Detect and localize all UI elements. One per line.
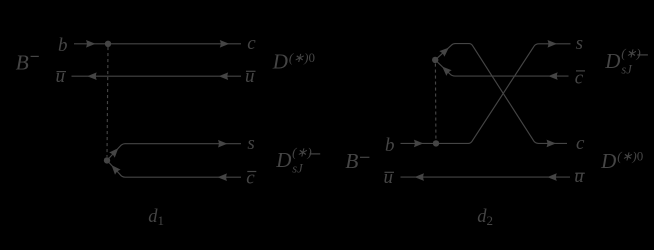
label cbar (d2): [575, 68, 585, 89]
arrow cbar horizontal (d2): [549, 73, 557, 79]
label ubar (d2 left): [384, 167, 395, 188]
arrow cbar horizontal (d1): [219, 174, 227, 180]
svg-text:c: c: [246, 167, 255, 188]
svg-text:u: u: [384, 167, 394, 188]
label ubar (d1 right): [245, 66, 256, 87]
label cbar (d1): [246, 167, 256, 188]
quark line cbar with curl from lower vertex (d1): [107, 160, 241, 177]
svg-text:1: 1: [158, 213, 165, 228]
svg-text:c: c: [576, 133, 585, 154]
label d1 (caption): [148, 207, 164, 228]
vertex dot lower (d1): [104, 157, 110, 163]
svg-text:2: 2: [487, 213, 494, 228]
svg-text:D: D: [275, 148, 291, 172]
arrow c (d1): [220, 41, 228, 47]
vertex dot lower (d2): [433, 140, 439, 146]
svg-text:s: s: [247, 133, 254, 154]
label ubar (d1 left): [56, 66, 67, 87]
label ubar (d2 right): [574, 166, 585, 187]
svg-text:sJ: sJ: [621, 63, 633, 77]
svg-text:(∗): (∗): [292, 144, 312, 159]
label B- (d1): [16, 51, 39, 75]
quark line b->c (d1 top): [74, 43, 241, 45]
arrow ubar right (d1): [220, 73, 228, 79]
svg-text:u: u: [56, 66, 66, 87]
quark line ubar (d1 spectator): [72, 75, 242, 77]
arrow ubar left (d2): [416, 174, 424, 180]
arrow c diagonal at curl (d2): [440, 46, 450, 56]
quark line cbar from upper vertex (d2): [435, 60, 568, 76]
svg-text:B: B: [345, 149, 358, 173]
vertex dot upper (d2): [432, 57, 438, 63]
svg-text:c: c: [247, 33, 256, 54]
svg-text:(∗)0: (∗)0: [289, 50, 315, 65]
svg-text:(∗): (∗): [621, 45, 641, 60]
label d2 (caption): [477, 207, 493, 228]
svg-text:D: D: [604, 49, 620, 73]
svg-text:D: D: [272, 50, 288, 74]
arrow cbar diagonal (d1): [110, 164, 120, 174]
arrow ubar right (d2): [548, 174, 556, 180]
arrow b (d2): [415, 140, 423, 146]
quark line b with bend up to s label (d2): [401, 44, 571, 144]
svg-text:u: u: [574, 166, 584, 187]
quark line c from upper vertex curl crossing down (d2): [435, 44, 567, 144]
svg-text:D: D: [600, 149, 616, 173]
label D(*)0 (d2): [600, 149, 643, 173]
gluon/W propagator dashed (d2): [434, 64, 437, 141]
arrow s (d2): [548, 41, 556, 47]
arrow b (d1): [87, 41, 95, 47]
W propagator dashed (d1): [107, 47, 108, 157]
label B- (d2): [345, 149, 369, 173]
arrow cbar diagonal at curl (d2): [441, 65, 451, 75]
label DsJ(*)- (d2): [604, 45, 648, 76]
arrow ubar left (d1): [88, 73, 96, 79]
svg-text:sJ: sJ: [292, 162, 304, 176]
quark line ubar (d2 spectator): [401, 176, 571, 178]
arrow c horizontal (d2): [547, 140, 555, 146]
svg-text:s: s: [576, 33, 583, 54]
quark line s with curl from lower vertex (d1): [107, 144, 241, 161]
svg-text:B: B: [16, 51, 29, 75]
label D(*)0 (d1): [272, 50, 315, 74]
vertex dot upper (d1): [105, 41, 111, 47]
svg-text:(∗)0: (∗)0: [617, 149, 643, 164]
arrow s diagonal (d1): [110, 147, 120, 157]
svg-text:b: b: [58, 35, 68, 56]
arrow s horizontal (d1): [219, 141, 227, 147]
svg-text:u: u: [245, 66, 255, 87]
label DsJ(*)- (d1): [275, 144, 320, 175]
svg-text:b: b: [385, 135, 395, 156]
